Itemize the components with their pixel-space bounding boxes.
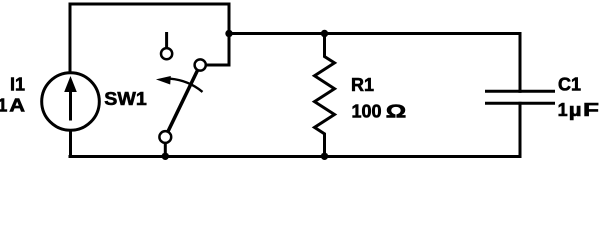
svg-text:F: F <box>583 100 599 120</box>
svg-text:1: 1 <box>558 100 568 120</box>
svg-text:SW1: SW1 <box>104 89 147 109</box>
pole stub <box>164 144 167 157</box>
pole contact <box>159 131 171 143</box>
junction node top <box>225 30 232 37</box>
wire top horizontal <box>70 4 229 34</box>
current source I1 <box>42 73 100 131</box>
wire switch throw to node <box>207 34 230 66</box>
throw contact closed <box>195 59 206 70</box>
junction node R1 bottom <box>321 153 328 160</box>
svg-text:1: 1 <box>0 96 7 116</box>
svg-text:100: 100 <box>352 102 382 122</box>
junction node SW1 bottom <box>162 153 169 160</box>
svg-text:R1: R1 <box>351 75 374 95</box>
throw contact open <box>161 48 172 59</box>
wire mid horizontal node to R1 and C1 <box>229 32 520 35</box>
resistor R1 <box>315 34 335 157</box>
throw stub (open) <box>165 32 168 47</box>
junction node R1 top <box>321 30 328 37</box>
svg-text:C1: C1 <box>558 75 581 95</box>
wire C1 top vertical <box>519 34 522 92</box>
arrowhead <box>156 76 171 85</box>
svg-text:I1: I1 <box>10 75 25 95</box>
actuation arc <box>170 79 202 92</box>
svg-text:Ω: Ω <box>386 102 407 122</box>
wire C1 bottom vertical <box>519 103 522 156</box>
svg-text:µ: µ <box>569 100 582 120</box>
svg-text:A: A <box>9 96 25 116</box>
switch SW1 <box>156 32 206 157</box>
wire bottom horizontal <box>70 155 520 158</box>
lever <box>168 71 197 131</box>
wire left vertical to source <box>69 4 72 73</box>
capacitor C1 <box>485 91 555 103</box>
wire below source to bottom <box>69 130 72 157</box>
